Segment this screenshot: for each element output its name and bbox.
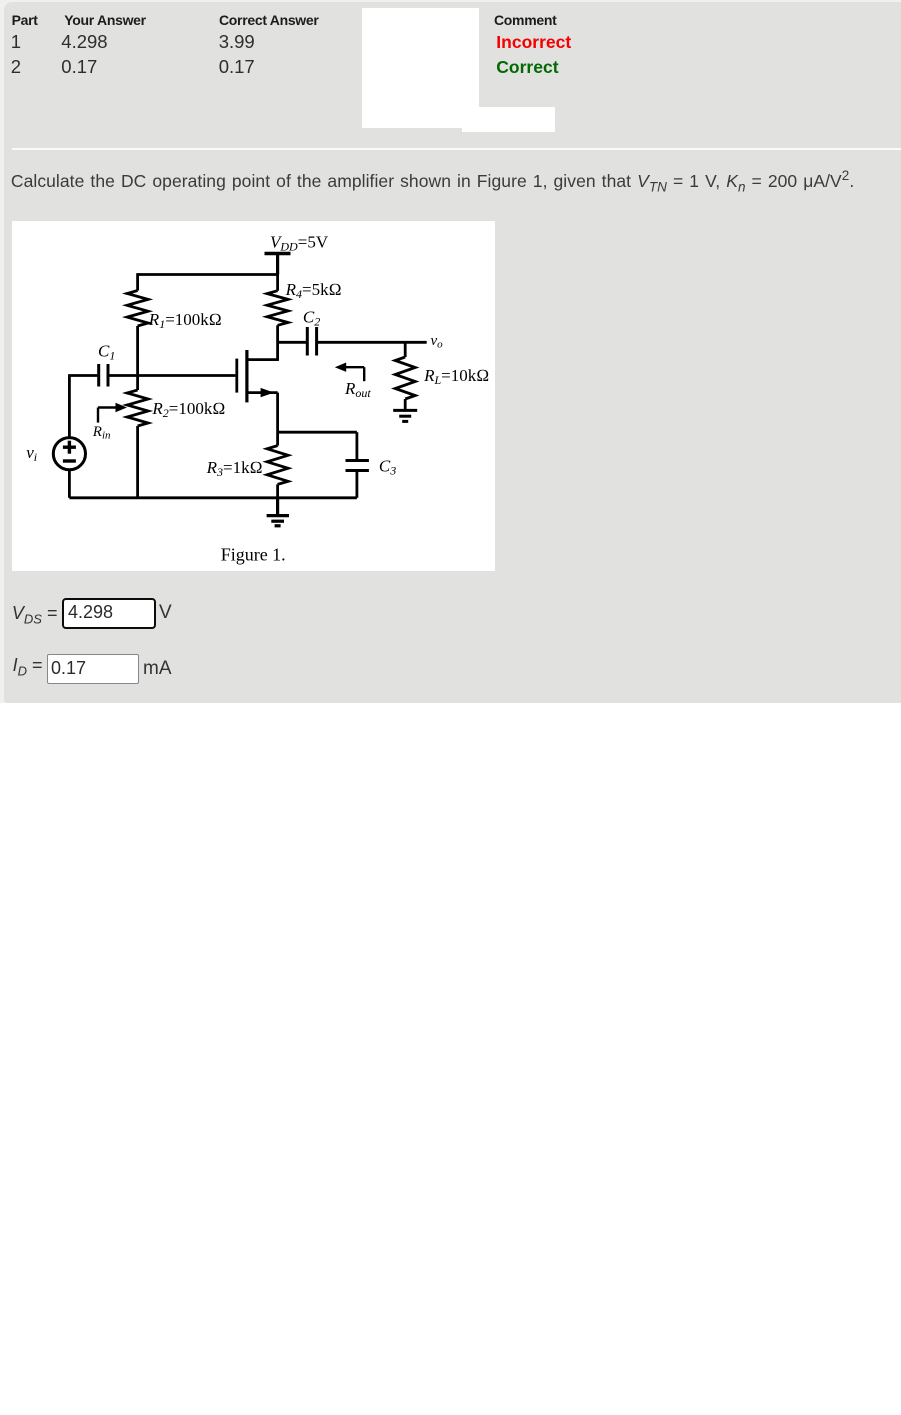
svg-text:Figure 1.: Figure 1. [221,545,286,565]
svg-text:R2=100kΩ: R2=100kΩ [151,399,225,420]
svg-text:C2: C2 [303,308,320,329]
svg-text:R1=100kΩ: R1=100kΩ [148,310,222,331]
svg-text:C3: C3 [379,457,396,478]
svg-text:C1: C1 [98,342,115,363]
svg-text:Rout: Rout [344,379,371,400]
svg-text:vi: vi [26,443,37,464]
svg-text:VDD=5V: VDD=5V [270,233,329,254]
svg-text:Rin: Rin [92,424,111,442]
svg-text:vo: vo [431,333,444,351]
svg-text:R4=5kΩ: R4=5kΩ [285,280,342,301]
svg-text:R3=1kΩ: R3=1kΩ [206,458,263,479]
svg-text:RL=10kΩ: RL=10kΩ [423,366,489,387]
